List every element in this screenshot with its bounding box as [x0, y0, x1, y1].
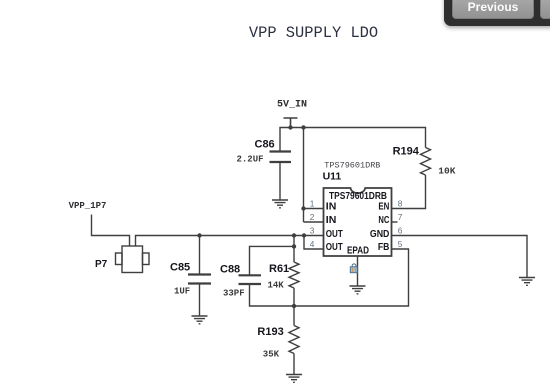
- svg-text:IN: IN: [326, 215, 337, 226]
- svg-text:33PF: 33PF: [223, 289, 245, 299]
- navigation bar: [444, 0, 550, 26]
- svg-text:5: 5: [398, 239, 403, 249]
- wire GND to ground: [392, 236, 528, 278]
- svg-text:GND: GND: [370, 229, 390, 240]
- wire EPAD to ground: [357, 256, 359, 286]
- capacitor C88: [239, 275, 262, 284]
- svg-text:EN: EN: [378, 202, 389, 213]
- svg-text:10K: 10K: [438, 166, 455, 177]
- ground under R193: [286, 375, 302, 383]
- svg-text:7: 7: [398, 212, 403, 222]
- wire IN bus: [304, 128, 324, 223]
- svg-text:C88: C88: [220, 264, 240, 276]
- svg-text:8: 8: [398, 199, 403, 209]
- svg-text:EPAD: EPAD: [347, 245, 369, 256]
- wire C88 top: [250, 246, 295, 275]
- wire R61 top: [293, 236, 295, 263]
- svg-text:VPP SUPPLY LDO: VPP SUPPLY LDO: [249, 24, 378, 42]
- next button clipped: [540, 0, 550, 19]
- capacitor C85: [188, 275, 211, 284]
- svg-text:C86: C86: [255, 138, 275, 150]
- svg-text:2: 2: [310, 212, 315, 222]
- svg-text:VPP_1P7: VPP_1P7: [69, 201, 107, 211]
- svg-text:14K: 14K: [268, 281, 285, 291]
- svg-text:OUT: OUT: [326, 242, 343, 253]
- svg-text:6: 6: [398, 226, 403, 236]
- node FB junction: [292, 304, 296, 308]
- svg-text:1: 1: [310, 199, 315, 209]
- Previous button: [452, 0, 534, 19]
- ground under C86: [272, 200, 288, 208]
- node R61 tap: [292, 233, 296, 237]
- node pin1 junction: [301, 206, 305, 210]
- svg-text:NC: NC: [378, 215, 389, 226]
- wire OUT pin4 branch: [304, 236, 324, 250]
- wire R193 top: [293, 306, 295, 326]
- op-amp U11 body: [324, 188, 392, 256]
- capacitor C86: [270, 152, 292, 163]
- wire C85 top: [199, 236, 201, 275]
- svg-text:5V_IN: 5V_IN: [277, 100, 307, 111]
- lock icon attribute marker: [350, 264, 357, 273]
- wire C86 to ground: [279, 162, 281, 200]
- connector P7: [122, 246, 143, 273]
- wire R194 to EN: [392, 175, 426, 209]
- svg-text:R193: R193: [257, 326, 283, 338]
- ground under C85: [192, 316, 208, 324]
- svg-text:OUT: OUT: [326, 229, 343, 240]
- node 5V junction: [288, 125, 292, 129]
- resistor R194: [421, 148, 431, 176]
- svg-text:R61: R61: [269, 263, 289, 275]
- ground under EPAD: [350, 286, 366, 294]
- wire 5V rail: [280, 128, 426, 152]
- svg-text:2.2UF: 2.2UF: [237, 155, 264, 165]
- wire P7 to OUT pin3: [136, 236, 324, 247]
- svg-text:TPS79601DRB: TPS79601DRB: [329, 191, 387, 202]
- svg-text:IN: IN: [326, 202, 337, 213]
- wire FB loop: [294, 249, 409, 306]
- svg-text:4: 4: [310, 239, 315, 249]
- wire VPP_1P7 to P7: [92, 215, 130, 247]
- svg-text:U11: U11: [323, 171, 342, 183]
- wire R61 bottom: [293, 288, 295, 306]
- wire C85 to ground: [199, 284, 201, 317]
- node pin4 tap: [302, 233, 306, 237]
- resistor R61: [289, 262, 299, 288]
- svg-text:TPS79601DRB: TPS79601DRB: [324, 161, 380, 171]
- node C85 tap: [197, 233, 201, 237]
- svg-text:3: 3: [310, 226, 315, 236]
- wire NC stub: [392, 221, 398, 223]
- ground right: [519, 278, 535, 286]
- wire R193 to ground: [293, 354, 295, 375]
- power symbol 5V_IN: [284, 118, 298, 128]
- resistor R193: [289, 326, 299, 354]
- node IN bus top: [301, 125, 305, 129]
- wire C88 bottom: [250, 284, 295, 306]
- svg-text:35K: 35K: [263, 350, 280, 360]
- svg-text:C85: C85: [170, 261, 190, 273]
- svg-text:FB: FB: [378, 242, 390, 253]
- svg-text:P7: P7: [95, 259, 108, 270]
- svg-text:R194: R194: [393, 145, 420, 157]
- node C88 tap: [292, 244, 296, 248]
- svg-text:1UF: 1UF: [174, 286, 190, 296]
